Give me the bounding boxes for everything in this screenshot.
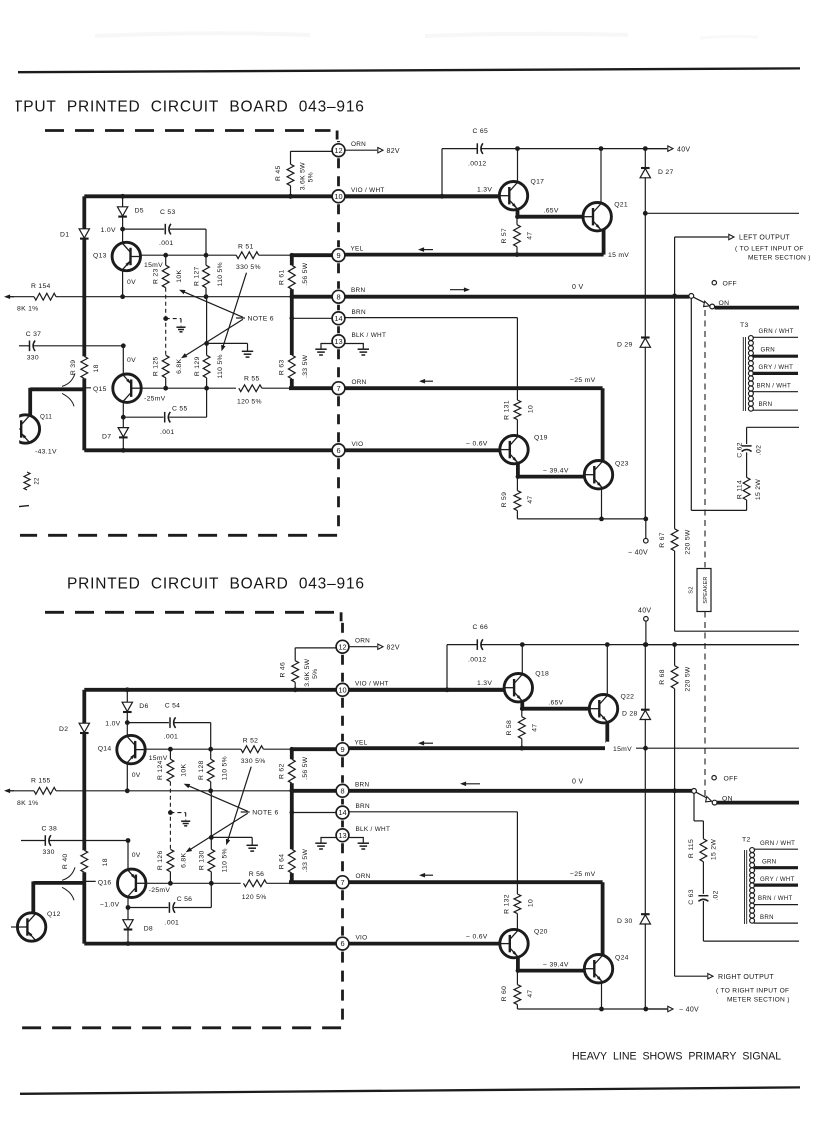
svg-text:HEAVY LINE SHOWS PRIMARY S: HEAVY LINE SHOWS PRIMARY SIGNAL	[572, 1051, 781, 1063]
node 13	[336, 829, 349, 842]
capacitor C53	[123, 228, 165, 230]
board outline dashed top edge	[45, 611, 335, 614]
svg-text:D 28: D 28	[622, 711, 638, 718]
svg-text:C 56: C 56	[177, 896, 193, 903]
svg-text:.65V: .65V	[544, 208, 559, 215]
wire: heavy line after bottom switch to page edge	[717, 801, 799, 805]
svg-text:8: 8	[336, 292, 340, 301]
svg-text:OFF: OFF	[724, 775, 739, 782]
svg-text:1.0V: 1.0V	[101, 227, 116, 234]
switch S2 bottom: pole and ON contact	[692, 789, 697, 794]
svg-text:( TO RIGHT INPUT OF: ( TO RIGHT INPUT OF	[716, 988, 789, 995]
svg-text:.65V: .65V	[548, 700, 563, 707]
svg-text:10: 10	[338, 685, 346, 694]
svg-text:1.0V: 1.0V	[105, 720, 120, 727]
svg-text:15mV: 15mV	[144, 262, 163, 269]
resistor R40	[81, 850, 88, 872]
T2 tap BRN/WHT	[754, 904, 798, 906]
resistor R45	[290, 151, 292, 164]
svg-text:6: 6	[340, 939, 344, 948]
resistor R126 (pot)	[167, 849, 174, 872]
node 7	[332, 382, 345, 395]
svg-text:40V: 40V	[677, 146, 690, 153]
resistor R125 (pot)	[162, 355, 169, 378]
board outline dashed right edge (node column)	[337, 141, 340, 142]
wire: bottom switch pole to R115 chain	[693, 793, 695, 821]
svg-text:0 V: 0 V	[572, 778, 583, 785]
T2 tap GRY/WHT (heavy)	[754, 883, 798, 886]
capacitor C38 line	[21, 840, 45, 842]
svg-text:− 0.6V: − 0.6V	[466, 934, 488, 941]
svg-text:R 45: R 45	[275, 165, 282, 181]
svg-text:R 60: R 60	[501, 986, 508, 1002]
wire: Q15 collector from C37 line	[122, 346, 124, 375]
diode D30	[641, 913, 650, 915]
svg-text:R 128: R 128	[198, 760, 205, 780]
wire: heavy base line to Q18	[345, 688, 505, 692]
transistor Q19	[500, 435, 528, 463]
svg-text:D1: D1	[60, 232, 69, 239]
node 1.0V	[125, 720, 130, 725]
transistor Q18	[504, 674, 532, 702]
svg-text:R 59: R 59	[501, 492, 508, 508]
svg-text:Q20: Q20	[534, 929, 548, 936]
svg-text:.56 5W: .56 5W	[302, 756, 309, 780]
svg-text:BLK / WHT: BLK / WHT	[356, 826, 391, 833]
svg-text:D8: D8	[144, 926, 153, 933]
ground right of node 13	[349, 838, 364, 843]
svg-text:6.8K: 6.8K	[181, 853, 188, 868]
svg-text:NOTE 6: NOTE 6	[252, 809, 278, 816]
transistor Q11 (partial at page edge)	[11, 415, 39, 443]
resistor R46	[294, 648, 296, 661]
svg-text:10K: 10K	[181, 764, 188, 777]
dashed gang link S2	[704, 310, 706, 568]
svg-text:R 64: R 64	[279, 854, 286, 870]
wire: heavy VIO line node 6	[84, 448, 332, 452]
svg-text:C 63: C 63	[688, 889, 695, 905]
wire: heavy left leg lower	[82, 378, 86, 450]
annotation arcs near R39	[62, 373, 75, 386]
wire: Q13 emitter to 0V rail	[122, 270, 124, 297]
resistor R23 (pot)	[165, 255, 167, 265]
transformer T2 winding	[750, 848, 755, 853]
svg-text:RIGHT OUTPUT: RIGHT OUTPUT	[718, 974, 774, 981]
svg-text:R 56: R 56	[249, 871, 265, 878]
capacitor C63	[698, 895, 708, 897]
svg-text:GRY / WHT: GRY / WHT	[760, 876, 795, 883]
resistor R55	[239, 385, 262, 392]
svg-text:22: 22	[35, 477, 41, 485]
transistor Q13	[112, 242, 140, 270]
svg-text:8K 1%: 8K 1%	[17, 800, 39, 807]
svg-text:OFF: OFF	[723, 280, 738, 287]
svg-text:YEL: YEL	[355, 740, 368, 747]
svg-text:Q13: Q13	[93, 253, 107, 260]
wire: base rail of Q14 to node 9	[145, 748, 241, 750]
diode D6	[125, 687, 130, 692]
svg-text:0V: 0V	[132, 772, 141, 779]
switch S2 top: OFF contact	[712, 281, 716, 285]
wire: heavy YEL line node 9 to Q21 emitter	[345, 253, 604, 257]
svg-text:D5: D5	[135, 208, 144, 215]
resistor R154	[34, 293, 56, 300]
svg-text:.0012: .0012	[468, 657, 487, 664]
wire: heavy 0V line node 8 to switch	[349, 789, 692, 793]
wire: horizontal line from D27 junction to page edge	[643, 211, 648, 216]
svg-text:3.6K 5W: 3.6K 5W	[300, 162, 307, 190]
resistor R63	[290, 318, 294, 355]
wire: Q22 collector to rail	[606, 645, 608, 697]
svg-text:VIO: VIO	[356, 934, 368, 941]
resistor R59	[516, 477, 518, 491]
svg-text:3.6K 5W: 3.6K 5W	[304, 658, 311, 686]
svg-text:R 55: R 55	[244, 376, 260, 383]
svg-text:R 40: R 40	[62, 854, 69, 870]
svg-text:R 154: R 154	[31, 283, 51, 290]
wire: Q14 emitter to 0V rail	[126, 763, 128, 791]
capacitor C55	[121, 415, 126, 420]
svg-text:BRN / WHT: BRN / WHT	[758, 895, 793, 902]
wire: 40V rail bottom to page edge	[646, 644, 799, 646]
svg-text:15 mV: 15 mV	[608, 252, 629, 259]
svg-text:14: 14	[338, 808, 346, 817]
svg-text:220 5W: 220 5W	[685, 529, 692, 555]
resistor R56	[244, 880, 267, 887]
wire: Q21 collector to rail	[600, 149, 602, 205]
transformer T2 core	[744, 850, 746, 924]
node 10	[332, 190, 345, 203]
svg-text:8: 8	[340, 786, 344, 795]
svg-text:Q24: Q24	[615, 955, 629, 962]
svg-text:Q17: Q17	[531, 179, 545, 186]
diode D8	[127, 897, 129, 921]
svg-text:VIO: VIO	[352, 441, 364, 448]
node 14	[336, 806, 349, 819]
transformer T3 core	[742, 337, 744, 411]
resistor R62	[290, 749, 294, 759]
capacitor C65	[476, 143, 478, 154]
node 9	[336, 743, 349, 756]
svg-text:7: 7	[340, 878, 344, 887]
svg-text:.001: .001	[160, 429, 174, 436]
dashed wiper link of R124/R126	[169, 782, 171, 850]
wire: heavy ORN line node 7 to Q24 collector	[349, 880, 603, 884]
capacitor C66	[476, 639, 478, 650]
resistor stub at left edge (22)	[24, 472, 30, 490]
T3 tap GRY/WHT (heavy)	[753, 372, 799, 375]
svg-text:BRN: BRN	[760, 914, 774, 921]
wire: node 14 to R131	[345, 317, 518, 319]
svg-text:R 39: R 39	[70, 360, 77, 376]
scan smudge marks (decorative)	[95, 33, 310, 36]
wire: C63 to page edge bracket	[703, 940, 799, 942]
svg-text:D 30: D 30	[617, 918, 633, 925]
svg-text:0 V: 0 V	[572, 284, 583, 291]
wire: heavy 0V line node 8 to switch	[345, 295, 689, 299]
svg-text:NOTE 6: NOTE 6	[248, 315, 274, 322]
svg-text:R 114: R 114	[737, 480, 744, 499]
wire: node 14 to R132	[349, 811, 518, 813]
ground right of node 13	[345, 344, 364, 349]
resistor R51	[236, 252, 259, 259]
wire: heavy VIO line node 6	[84, 942, 336, 946]
transistor Q23	[584, 461, 612, 489]
svg-text:S2: S2	[689, 586, 695, 593]
svg-text:9: 9	[340, 745, 344, 754]
svg-text:5%: 5%	[308, 172, 315, 182]
resistor R64	[290, 813, 294, 850]
node 13	[332, 335, 345, 348]
svg-text:18: 18	[93, 364, 100, 372]
svg-text:C 37: C 37	[26, 331, 42, 338]
capacitor C56	[126, 905, 131, 910]
svg-text:82V: 82V	[387, 148, 400, 155]
resistor R127	[205, 255, 207, 265]
svg-text:110 5%: 110 5%	[222, 756, 229, 780]
15 mV label	[605, 743, 636, 753]
transistor Q15	[84, 387, 113, 389]
resistor R132	[514, 894, 521, 914]
wire: heavy branch to Q11	[30, 387, 86, 391]
svg-text:YEL: YEL	[351, 246, 364, 253]
capacitor C62	[746, 452, 748, 477]
wire: Q15 base rail to node 7	[141, 387, 236, 389]
svg-text:T3: T3	[740, 322, 749, 329]
svg-text:D2: D2	[59, 726, 68, 733]
svg-text:110 5%: 110 5%	[217, 262, 224, 286]
svg-text:.001: .001	[159, 240, 173, 247]
wire: Q17 collector to rail	[517, 149, 519, 184]
svg-text:120 5%: 120 5%	[242, 894, 267, 901]
svg-text:D6: D6	[139, 703, 148, 710]
diode D29	[641, 336, 650, 338]
T2 tap GRN/WHT	[754, 848, 798, 850]
svg-text:R 115: R 115	[688, 839, 695, 858]
svg-text:10: 10	[528, 405, 535, 413]
svg-text:METER SECTION ): METER SECTION )	[748, 255, 811, 262]
resistor R130	[210, 791, 212, 838]
svg-text:R 125: R 125	[153, 356, 160, 376]
node 8	[332, 290, 345, 303]
switch S2 top: pole and ON contact	[689, 294, 694, 299]
svg-text:R 63: R 63	[279, 360, 286, 376]
wire: Q23 emitter	[601, 488, 603, 519]
svg-text:BRN: BRN	[759, 401, 773, 408]
svg-text:−1.0V: −1.0V	[100, 902, 120, 909]
svg-text:0V: 0V	[127, 357, 136, 364]
node 9	[332, 249, 345, 262]
node 12	[332, 144, 345, 157]
node 12	[336, 640, 349, 653]
svg-text:C 62: C 62	[737, 442, 744, 458]
svg-text:.33 5W: .33 5W	[302, 354, 309, 378]
svg-text:( TO LEFT INPUT OF: ( TO LEFT INPUT OF	[735, 245, 804, 252]
transistor Q22	[589, 695, 617, 723]
diode D5	[120, 194, 125, 199]
wire: 0V rail with R155	[7, 790, 14, 792]
board outline dashed bottom edge	[20, 534, 337, 537]
capacitor C54	[127, 722, 169, 724]
diode D1 inline on heavy left leg	[82, 196, 86, 229]
wire: heavy left leg lower	[82, 872, 86, 943]
resistor R129	[206, 297, 208, 344]
svg-text:5%: 5%	[312, 668, 319, 678]
svg-text:.02: .02	[713, 890, 720, 900]
wire: heavy Q17 emitter to Q21 base	[516, 208, 520, 217]
wire: 82V feed from node 12	[345, 149, 377, 151]
svg-text:VIO / WHT: VIO / WHT	[355, 680, 389, 687]
wire: heavy VIO/WHT line node 10 to Q17 base and left leg	[84, 688, 505, 692]
svg-text:R 58: R 58	[506, 720, 513, 736]
svg-text:ORN: ORN	[356, 873, 371, 880]
svg-text:C 38: C 38	[42, 826, 58, 833]
T3 tap GRN (heavy)	[753, 355, 799, 358]
svg-text:BRN: BRN	[352, 309, 366, 316]
svg-text:D 27: D 27	[658, 169, 674, 176]
svg-text:R 129: R 129	[194, 356, 201, 376]
T3 tap BRN/WHT	[753, 391, 799, 393]
transistor Q16	[84, 880, 118, 882]
svg-text:R 62: R 62	[279, 763, 286, 779]
resistor R115	[700, 839, 707, 862]
direction arrow on YEL line	[421, 249, 433, 251]
svg-text:330 5%: 330 5%	[236, 264, 261, 271]
svg-text:SPEAKER: SPEAKER	[703, 576, 709, 603]
svg-text:C 66: C 66	[473, 624, 489, 631]
wire: node 14 row	[290, 297, 294, 319]
svg-text:6.8K: 6.8K	[176, 359, 183, 374]
svg-text:GRY / WHT: GRY / WHT	[759, 364, 794, 371]
wire: heavy YEL line node 9 to Q22 emitter	[349, 746, 607, 750]
resistor R52	[241, 746, 264, 753]
svg-text:−25 mV: −25 mV	[570, 871, 596, 878]
junction dots on rail	[515, 146, 520, 151]
svg-text:.33 5W: .33 5W	[302, 849, 309, 873]
svg-text:10: 10	[334, 192, 342, 201]
svg-text:Q15: Q15	[93, 386, 107, 393]
ground left of node 13	[321, 344, 333, 349]
svg-text:PRINTED CIRCUIT BOARD 043–9: PRINTED CIRCUIT BOARD 043–916	[67, 576, 365, 593]
NOTE 6 label and arrows	[236, 317, 245, 319]
ground at R129 branch	[242, 350, 253, 352]
junction dots on rail	[520, 642, 525, 647]
wire: heavy Q19 emitter to Q23 base	[516, 462, 520, 476]
svg-text:15 2W: 15 2W	[710, 839, 717, 860]
svg-text:12: 12	[338, 642, 346, 651]
transistor Q17	[499, 182, 527, 210]
svg-text:R 130: R 130	[199, 850, 206, 870]
svg-text:47: 47	[527, 232, 534, 240]
svg-text:GRN / WHT: GRN / WHT	[759, 328, 794, 335]
node 8	[336, 784, 349, 797]
top border rule	[18, 68, 800, 72]
resistor R124 (pot)	[169, 749, 171, 759]
svg-text:GRN: GRN	[761, 347, 775, 354]
svg-text:LEFT OUTPUT: LEFT OUTPUT	[739, 235, 790, 242]
wire: heavy base line to Q17	[345, 194, 500, 198]
svg-text:BRN: BRN	[351, 287, 365, 294]
wire: 0V rail with R154	[7, 296, 14, 298]
resistor R131	[514, 400, 521, 420]
wire: R68 down to RIGHT OUTPUT	[674, 791, 676, 976]
wire: -40V arrow bottom half	[646, 1008, 667, 1010]
svg-text:Q12: Q12	[47, 911, 61, 918]
svg-text:15 2W: 15 2W	[755, 479, 762, 500]
svg-text:GRN: GRN	[762, 858, 776, 865]
svg-text:R 155: R 155	[31, 777, 51, 784]
svg-text:R 23: R 23	[153, 268, 160, 284]
node 6	[332, 444, 345, 457]
diode D27	[644, 149, 646, 168]
resistor R68	[674, 645, 676, 666]
svg-text:10: 10	[528, 899, 535, 907]
resistor R155	[34, 787, 56, 794]
wire: R67 to page edge	[674, 551, 676, 631]
direction arrow on YEL line	[421, 742, 433, 744]
svg-text:9: 9	[336, 251, 340, 260]
svg-text:-43.1V: -43.1V	[35, 448, 57, 455]
svg-text:220 5W: 220 5W	[685, 666, 692, 692]
svg-text:330: 330	[27, 354, 39, 361]
svg-text:BLK / WHT: BLK / WHT	[352, 332, 387, 339]
svg-text:C 55: C 55	[172, 406, 188, 413]
svg-text:Q19: Q19	[534, 435, 548, 442]
svg-text:R 68: R 68	[659, 669, 666, 685]
node 7	[336, 876, 349, 889]
diode D28	[644, 645, 646, 710]
ground left of node 13	[321, 838, 337, 843]
wire: heavy Q20 emitter to Q24 base	[516, 956, 520, 970]
svg-text:ORN: ORN	[352, 379, 367, 386]
svg-text:120 5%: 120 5%	[237, 399, 262, 406]
svg-text:R 46: R 46	[280, 662, 287, 678]
svg-text:− 39.4V: − 39.4V	[543, 962, 569, 969]
svg-text:1.3V: 1.3V	[477, 680, 492, 687]
svg-text:.001: .001	[165, 920, 179, 927]
svg-text:Q22: Q22	[621, 694, 635, 701]
transistor Q14	[117, 735, 145, 763]
resistor R58	[520, 706, 525, 711]
svg-text:R 61: R 61	[279, 269, 286, 285]
svg-text:Q18: Q18	[535, 671, 549, 678]
direction arrow on 0V line	[450, 289, 467, 291]
svg-text:C 53: C 53	[160, 209, 176, 216]
wire: Q18 collector to rail	[521, 645, 523, 676]
svg-text:− 0.6V: − 0.6V	[466, 440, 488, 447]
NOTE 6 label and arrows	[241, 811, 250, 813]
board outline dashed top edge	[45, 129, 331, 132]
svg-text:− 40V: − 40V	[628, 550, 648, 557]
svg-text:.001: .001	[164, 733, 178, 740]
diode D2 inline on heavy left leg	[82, 690, 86, 724]
resistor R114	[746, 500, 748, 510]
wire: Q16 base rail to node 7	[146, 882, 241, 884]
svg-text:6: 6	[336, 446, 340, 455]
wire: 40V arrow top half	[645, 148, 667, 150]
resistor R39	[81, 356, 88, 378]
svg-text:110 5%: 110 5%	[222, 848, 229, 872]
wire: heavy VIO/WHT line node 10 to Q17 base and left leg	[84, 194, 500, 198]
svg-text:− 39.4V: − 39.4V	[543, 468, 569, 475]
svg-text:D7: D7	[102, 433, 111, 440]
svg-text:C 54: C 54	[165, 702, 181, 709]
svg-text:82V: 82V	[387, 644, 400, 651]
wire: heavy line after switch to page edge	[715, 306, 799, 310]
svg-text:BRN: BRN	[355, 781, 369, 788]
transformer T3 winding	[748, 336, 753, 341]
board outline dashed bottom edge	[20, 1026, 341, 1029]
